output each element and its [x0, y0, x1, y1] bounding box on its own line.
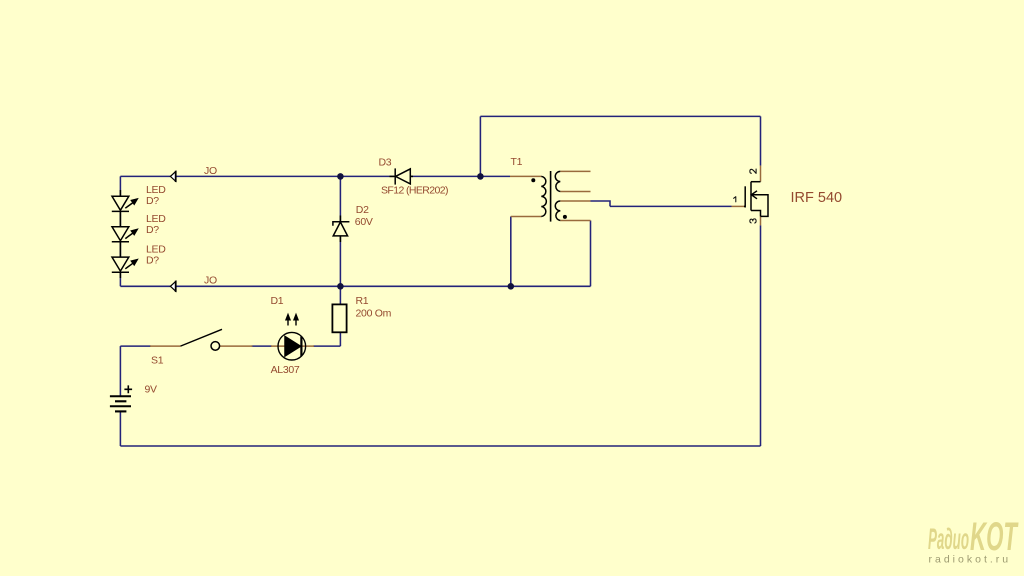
battery 9V [110, 385, 132, 411]
pin lead T1 sec top b [560, 191, 590, 193]
wire S1 left [120, 345, 151, 347]
wire battery top [119, 346, 121, 396]
svg-text:D?: D? [146, 255, 159, 267]
wire lower bus JO [120, 285, 590, 287]
svg-text:AL307: AL307 [271, 364, 300, 376]
pin lead S1 left [150, 345, 181, 347]
diode D3 [390, 168, 414, 184]
pin label 3 [750, 219, 756, 223]
wire R1 top [339, 286, 341, 304]
connector arrow upper JO [170, 171, 175, 182]
svg-text:T1: T1 [511, 156, 523, 168]
pin label 2 [750, 169, 756, 173]
wire D3 to T1 [411, 175, 510, 177]
wire R1 bottom [339, 332, 341, 346]
svg-text:D1: D1 [271, 295, 284, 307]
svg-text:JO: JO [204, 165, 217, 177]
pin lead T1 primary top [510, 175, 541, 177]
pin lead S1 right [220, 345, 253, 347]
svg-text:S1: S1 [151, 354, 164, 366]
junction node R1 top [337, 283, 344, 290]
junction node primary top [477, 173, 484, 180]
pin lead T1 sec bottom a [560, 200, 590, 202]
svg-text:9V: 9V [145, 384, 158, 396]
svg-text:LED: LED [146, 184, 166, 196]
pin lead T1 primary bottom [511, 216, 542, 218]
svg-text:R1: R1 [356, 295, 369, 307]
pin lead source [760, 216, 762, 225]
pin lead gate [732, 205, 746, 207]
svg-text:JO: JO [204, 274, 217, 286]
pin label 1 [734, 197, 736, 202]
wire primary return [510, 217, 512, 287]
svg-text:KOT: KOT [970, 515, 1019, 559]
svg-text:D?: D? [146, 224, 159, 236]
wire main horizontal bus JO upper [120, 175, 394, 177]
resistor R1 [332, 304, 346, 332]
LED D?3 [112, 257, 138, 278]
svg-text:SF12 (HER202): SF12 (HER202) [381, 185, 448, 197]
wire D2 branch [339, 176, 341, 286]
pin lead drain [760, 166, 762, 182]
phase dot secondary [563, 215, 567, 219]
wire LED string vertical [119, 176, 121, 286]
wire D1 to R1 [313, 345, 340, 347]
mosfet U1 IRF540 [744, 182, 768, 217]
junction node primary return [508, 283, 515, 290]
wire S1 to D1 [252, 345, 273, 347]
pin lead T1 sec top a [560, 170, 590, 172]
wire drain top [760, 116, 762, 165]
wire battery bottom [119, 411, 121, 446]
svg-text:D3: D3 [379, 156, 392, 168]
svg-text:radiokot.ru: radiokot.ru [929, 554, 1012, 566]
transformer T1 secondary winding lower [555, 201, 560, 221]
svg-text:D2: D2 [356, 204, 369, 216]
connector arrow lower JO [170, 281, 175, 292]
pin lead D1 through [271, 345, 314, 347]
wire secondary bottom return [590, 221, 592, 287]
wire right vertical to source [760, 225, 762, 446]
transformer T1 core [550, 171, 552, 222]
svg-text:IRF 540: IRF 540 [791, 190, 843, 206]
svg-text:D?: D? [146, 195, 159, 207]
wire drain drop from rail [479, 116, 481, 176]
svg-text:Радио: Радио [928, 523, 969, 556]
wire top rail [480, 115, 760, 117]
switch S1 [181, 329, 223, 350]
wire gate [610, 205, 732, 207]
LED D?2 [112, 227, 138, 257]
wire gate step [591, 201, 611, 206]
transformer T1 primary winding [541, 176, 546, 216]
svg-text:200 Om: 200 Om [356, 307, 392, 319]
junction node D2/D3 top [337, 173, 344, 180]
LED D?1 [112, 190, 138, 227]
phase dot primary [531, 178, 535, 182]
svg-text:60V: 60V [355, 216, 373, 228]
wire bottom rail [120, 445, 760, 447]
transformer T1 secondary winding upper [555, 171, 560, 191]
zener diode D2 [333, 216, 350, 243]
pin lead T1 sec bottom b [560, 220, 590, 222]
LED D1 AL307 [278, 314, 306, 360]
